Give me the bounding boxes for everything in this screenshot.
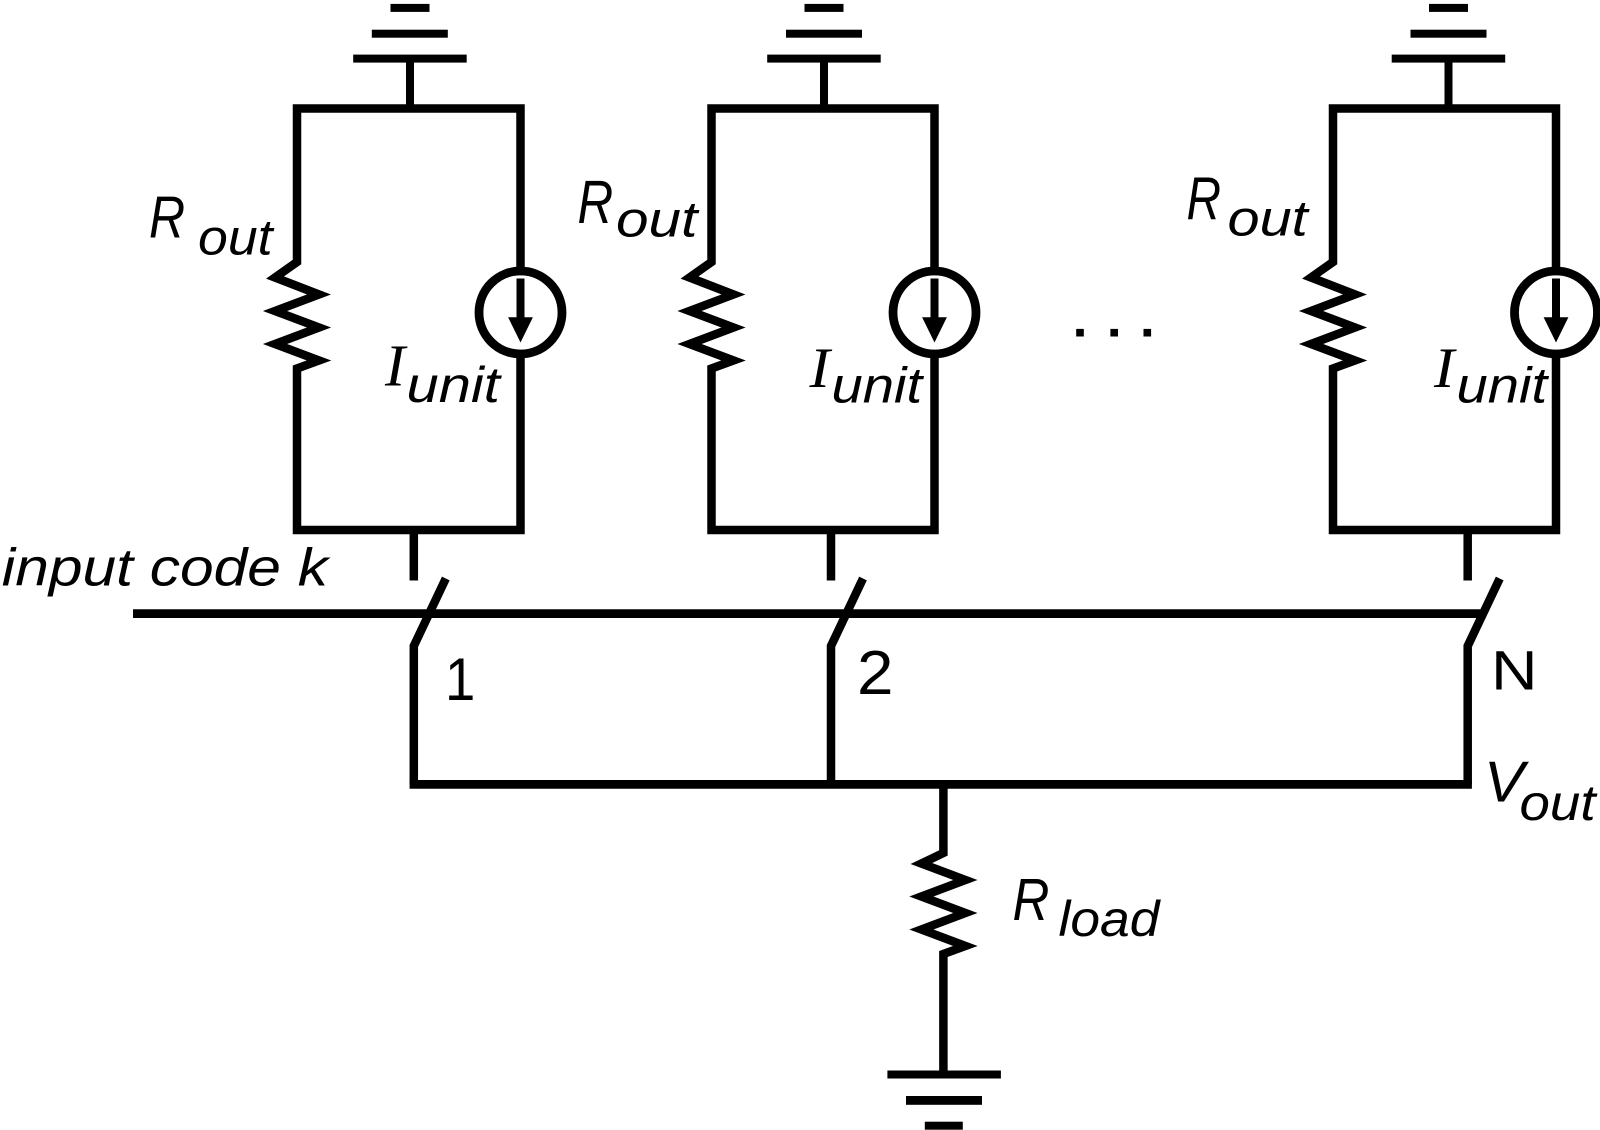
svg-text:2: 2: [857, 637, 893, 707]
svg-text:out: out: [1520, 776, 1599, 831]
svg-text:R: R: [1187, 165, 1222, 233]
svg-text:load: load: [1059, 891, 1162, 947]
svg-text:out: out: [198, 209, 275, 265]
svg-text:I: I: [808, 336, 832, 400]
svg-text:out: out: [1228, 191, 1310, 247]
svg-text:I: I: [1433, 336, 1457, 400]
svg-text:out: out: [616, 191, 700, 247]
svg-text:I: I: [384, 333, 408, 398]
svg-text:1: 1: [445, 647, 475, 714]
svg-text:R: R: [149, 185, 185, 251]
svg-text:R: R: [578, 168, 614, 236]
svg-text:unit: unit: [407, 358, 503, 413]
svg-text:input code k: input code k: [2, 539, 331, 598]
svg-text:unit: unit: [832, 358, 925, 413]
svg-text:N: N: [1491, 639, 1538, 702]
svg-text:R: R: [1013, 867, 1050, 933]
svg-text:unit: unit: [1457, 358, 1550, 413]
